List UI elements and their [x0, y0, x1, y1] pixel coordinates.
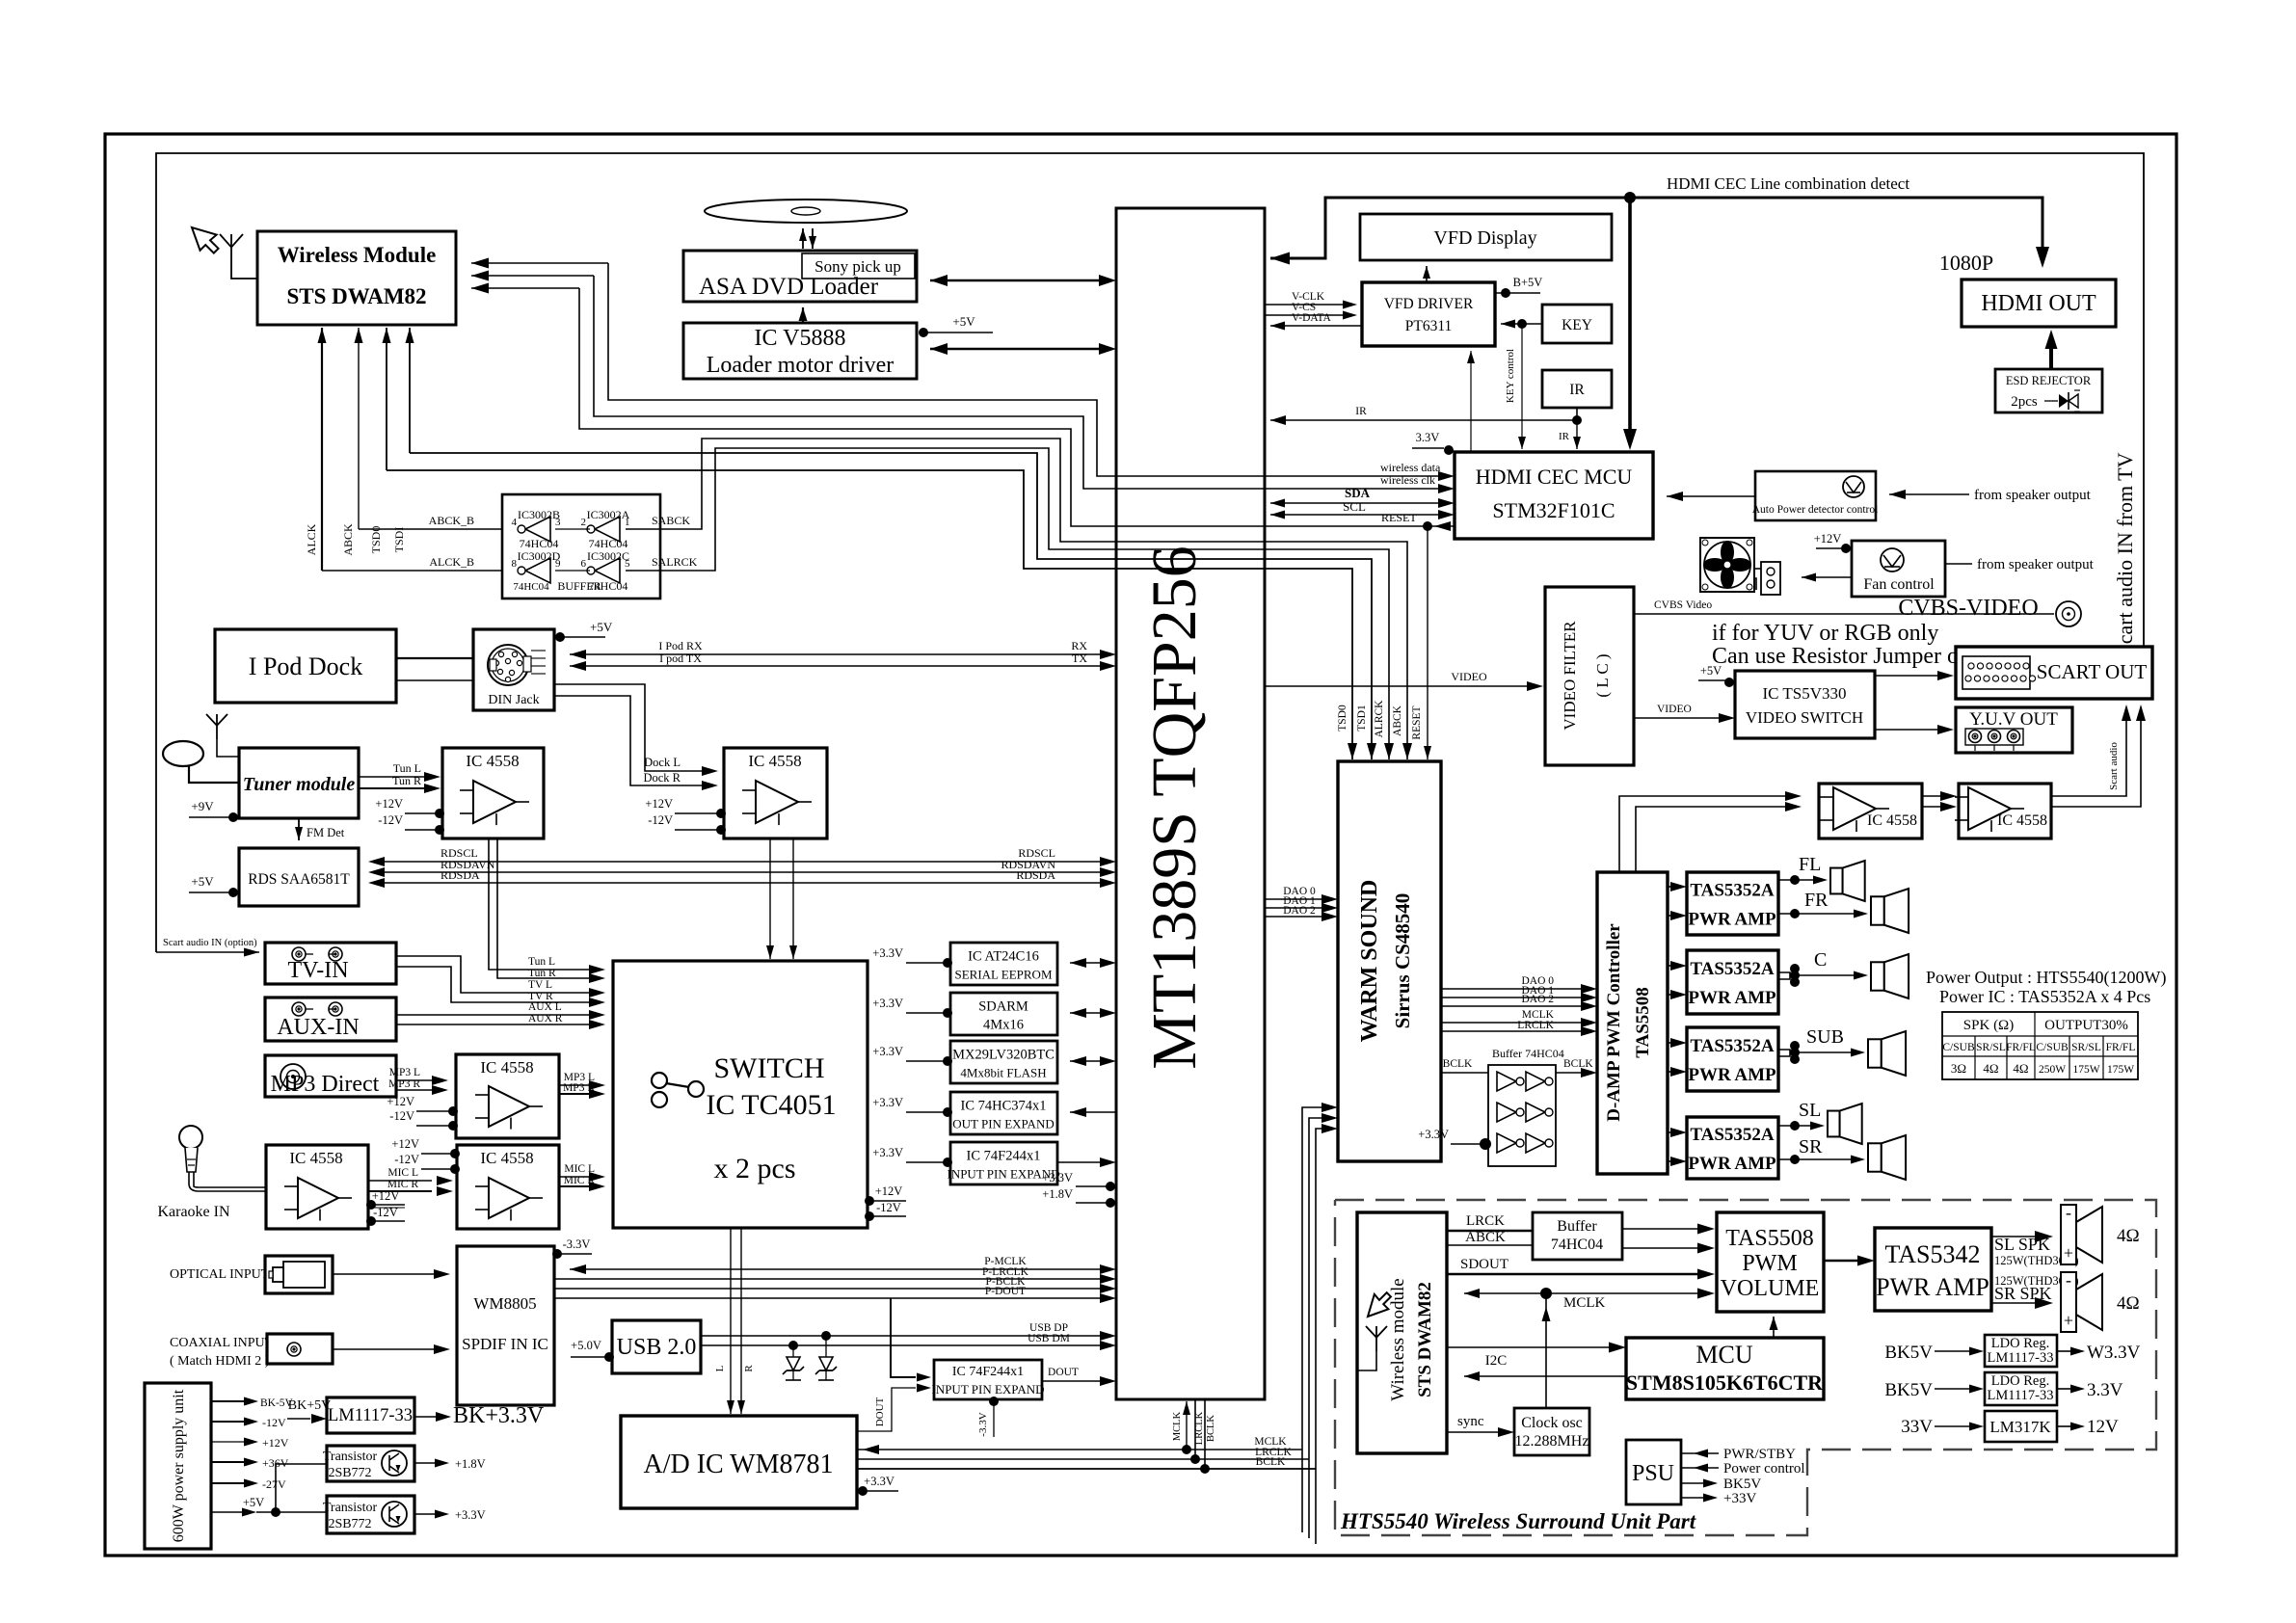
wire LRCLK line AD — [858, 1458, 1309, 1460]
svg-text:VOLUME: VOLUME — [1721, 1276, 1820, 1301]
block D-AMP PWM Controller TAS5508 — [1597, 872, 1668, 1174]
svg-text:TAS5352A: TAS5352A — [1690, 881, 1775, 901]
node +12V tuner opamp — [405, 812, 437, 814]
node +12V karaoke1 — [368, 1204, 405, 1206]
block IC 4558 karaoke 2 — [457, 1145, 559, 1229]
wire HDMI CEC line combination detect — [1270, 198, 2042, 258]
wire auto power to MCU — [1667, 495, 1755, 497]
svg-text:I pod TX: I pod TX — [659, 652, 702, 665]
svg-text:wireless data: wireless data — [1380, 461, 1441, 474]
svg-text:2: 2 — [581, 517, 587, 528]
wire TSD1 — [409, 328, 411, 453]
svg-text:x 2 pcs: x 2 pcs — [714, 1153, 796, 1184]
wire BK+5V in — [287, 1418, 310, 1420]
wire +5V branch to transistor1 — [276, 1464, 327, 1512]
svg-text:+5V: +5V — [590, 620, 613, 634]
disc — [705, 200, 907, 223]
wire RDSDA — [374, 882, 1103, 884]
svg-text:4Ω: 4Ω — [2117, 1226, 2140, 1246]
svg-text:IR: IR — [1569, 382, 1585, 398]
svg-text:Scart audio: Scart audio — [2108, 742, 2120, 790]
svg-text:+3.3V: +3.3V — [872, 946, 903, 960]
svg-text:+12V: +12V — [645, 797, 673, 811]
node -12V karaoke1 — [368, 1220, 405, 1222]
wire wireless data — [608, 263, 1447, 476]
svg-text:BK5V: BK5V — [1884, 1380, 1933, 1400]
block Clock osc 12.288MHz — [1514, 1408, 1589, 1455]
svg-text:MX29LV320BTC: MX29LV320BTC — [952, 1048, 1055, 1063]
svg-text:3Ω: 3Ω — [1951, 1061, 1966, 1076]
svg-text:175W: 175W — [2107, 1064, 2134, 1076]
wire Tun R down to switch — [497, 838, 596, 978]
wire SR SPK out — [1991, 1302, 2036, 1304]
block MT1389S TQFP256 — [1116, 208, 1265, 1399]
svg-text:I Pod Dock: I Pod Dock — [249, 652, 362, 680]
svg-text:PSU: PSU — [1632, 1461, 1674, 1486]
svg-text:SALRCK: SALRCK — [652, 555, 698, 569]
svg-text:MIC L: MIC L — [387, 1167, 418, 1179]
svg-text:LDO Reg.: LDO Reg. — [1991, 1373, 2049, 1389]
wire out1 to out2 — [1922, 795, 1945, 797]
svg-text:AUX-IN: AUX-IN — [277, 1015, 359, 1040]
svg-text:if for YUV or RGB only: if for YUV or RGB only — [1712, 621, 1938, 646]
wire LRCLK ws to damp — [1441, 1030, 1584, 1032]
svg-text:74HC04: 74HC04 — [589, 537, 628, 550]
wire MCLK line AD — [857, 1449, 1302, 1450]
block ESD REJECTOR — [1995, 369, 2102, 412]
svg-text:IC 4558: IC 4558 — [1997, 812, 2047, 829]
block Y.U.V OUT — [1956, 707, 2072, 753]
svg-text:ALCK_B: ALCK_B — [429, 555, 474, 569]
block Tuner module — [239, 748, 359, 818]
wire +12V psu — [211, 1441, 245, 1443]
svg-text:+: + — [2064, 1311, 2073, 1330]
svg-text:BK+5V: BK+5V — [288, 1398, 331, 1413]
svg-text:FR/FL: FR/FL — [2106, 1042, 2136, 1053]
svg-text:IC V5888: IC V5888 — [755, 326, 846, 351]
block IC 4558 mp3 — [456, 1054, 559, 1138]
svg-text:1: 1 — [625, 517, 630, 528]
svg-text:Dock R: Dock R — [643, 771, 681, 785]
block HDMI CEC MCU STM32F101C — [1455, 452, 1653, 539]
antenna wireless module — [230, 248, 232, 264]
svg-text:BCLK: BCLK — [1563, 1058, 1593, 1070]
svg-text:from speaker output: from speaker output — [1977, 557, 2095, 572]
wire SUB + speaker SUB — [1778, 1050, 1790, 1056]
svg-text:LM1117-33: LM1117-33 — [1987, 1388, 2053, 1403]
svg-text:Scart audio IN from TV: Scart audio IN from TV — [2113, 452, 2137, 655]
svg-text:SL: SL — [1799, 1100, 1821, 1121]
block PSU — [1626, 1440, 1681, 1504]
wire SCL — [1270, 514, 1447, 516]
svg-text:+5.0V: +5.0V — [571, 1339, 601, 1352]
wire Power control — [1681, 1467, 1719, 1469]
svg-text:SL SPK: SL SPK — [1994, 1235, 2050, 1254]
block MCU STM8S105K6T6CTR — [1626, 1338, 1824, 1399]
svg-text:WM8805: WM8805 — [473, 1294, 536, 1313]
svg-text:2SB772: 2SB772 — [328, 1466, 371, 1480]
wire TS5V330 to SCART — [1875, 675, 1940, 677]
svg-text:TV-IN: TV-IN — [287, 958, 348, 983]
svg-text:Power control: Power control — [1723, 1461, 1805, 1477]
wire BCLK up to warm sound — [1316, 1129, 1328, 1469]
svg-text:+3.3V: +3.3V — [872, 1045, 903, 1058]
svg-text:+12V: +12V — [375, 797, 403, 811]
svg-text:+12V: +12V — [391, 1137, 419, 1151]
svg-text:SUB: SUB — [1806, 1026, 1844, 1048]
wire MIC R stage1 — [368, 1190, 432, 1192]
svg-text:250W: 250W — [2039, 1064, 2066, 1076]
wire DAO 1 ws to damp — [1441, 997, 1584, 998]
wire MIC L stage1 — [368, 1180, 432, 1182]
svg-text:TV L: TV L — [528, 979, 552, 991]
svg-text:ASA DVD Loader: ASA DVD Loader — [699, 274, 879, 300]
svg-text:175W: 175W — [2072, 1064, 2099, 1076]
svg-text:MIC R: MIC R — [387, 1179, 419, 1190]
svg-text:Power IC : TAS5352A x 4 Pcs: Power IC : TAS5352A x 4 Pcs — [1939, 987, 2150, 1006]
svg-text:MCU: MCU — [1695, 1341, 1752, 1369]
svg-text:TX: TX — [1072, 652, 1087, 665]
svg-text:( L C ): ( L C ) — [1593, 653, 1612, 697]
svg-text:+3.3V: +3.3V — [872, 1096, 903, 1109]
svg-text:CVBS-VIDEO: CVBS-VIDEO — [1898, 596, 2038, 621]
node +5V TS5V330 — [1698, 679, 1725, 681]
svg-text:IC 4558: IC 4558 — [466, 752, 519, 770]
svg-text:TAS5352A: TAS5352A — [1690, 1036, 1775, 1056]
svg-text:PWM: PWM — [1742, 1251, 1797, 1276]
wire VIDEO out — [1265, 685, 1535, 687]
wire damp to opamp out1 b — [1636, 807, 1788, 872]
block IR — [1542, 370, 1612, 408]
svg-text:BK5V: BK5V — [1884, 1343, 1933, 1363]
svg-text:+1.8V: +1.8V — [455, 1457, 486, 1471]
wire CEC to MCU — [1628, 198, 1632, 434]
wire SR + speaker SR — [1778, 1158, 1855, 1160]
svg-text:C/SUB: C/SUB — [1942, 1042, 1975, 1053]
svg-text:L: L — [714, 1365, 726, 1371]
node +5.0V USB — [571, 1356, 606, 1358]
svg-text:12V: 12V — [2087, 1417, 2119, 1437]
svg-text:ABCK: ABCK — [1392, 705, 1403, 736]
svg-text:CVBS Video: CVBS Video — [1654, 599, 1712, 611]
block IC TS5V330 VIDEO SWITCH — [1735, 671, 1875, 738]
wire from speaker output 1 — [1889, 493, 1969, 495]
wire ALCK — [321, 328, 323, 571]
block USB 2.0 — [612, 1320, 701, 1373]
svg-text:Tun R: Tun R — [392, 774, 421, 787]
speaker SL surround — [2061, 1205, 2076, 1264]
svg-text:SDARM: SDARM — [978, 999, 1028, 1015]
svg-text:RDSDA: RDSDA — [1016, 868, 1055, 882]
svg-text:DIN Jack: DIN Jack — [488, 693, 539, 707]
node +5V DIN — [555, 632, 565, 642]
wire Dock R — [554, 696, 710, 785]
svg-text:IR: IR — [1559, 431, 1570, 442]
speaker SR surround — [2061, 1272, 2076, 1332]
block ASA DVD Loader — [683, 251, 917, 302]
block Transistor 2SB772 upper — [327, 1446, 414, 1481]
svg-text:MT1389S TQFP256: MT1389S TQFP256 — [1139, 545, 1210, 1069]
node -12V karaoke2 — [421, 1168, 453, 1170]
wire IR to MCU — [1576, 420, 1578, 449]
block Sony pick up — [802, 253, 915, 279]
block Auto Power detector control — [1755, 471, 1876, 520]
svg-text:LRCLK: LRCLK — [1194, 1411, 1205, 1445]
svg-text:4Ω: 4Ω — [1983, 1061, 1998, 1076]
svg-text:-12V: -12V — [389, 1109, 414, 1123]
svg-text:AUX L: AUX L — [528, 1001, 562, 1013]
wire out2 to scart b — [2051, 712, 2141, 807]
inverter IC3002A — [595, 517, 620, 542]
wire +1.8V out — [414, 1462, 436, 1464]
wire MCLK from MT1389S — [1186, 1401, 1188, 1450]
svg-text:Sirrus CS48540: Sirrus CS48540 — [1391, 893, 1414, 1029]
svg-text:HDMI OUT: HDMI OUT — [1981, 291, 2096, 316]
svg-text:SWITCH: SWITCH — [714, 1052, 825, 1084]
svg-text:3.3V: 3.3V — [1416, 431, 1440, 444]
wire Tun L to opamp — [359, 776, 424, 778]
svg-text:TAS5352A: TAS5352A — [1690, 959, 1775, 979]
block Fan control — [1852, 541, 1945, 597]
svg-text:STM32F101C: STM32F101C — [1492, 498, 1615, 522]
svg-text:+12V: +12V — [262, 1436, 289, 1450]
block SWITCH IC TC4051 — [613, 961, 868, 1228]
svg-text:4Ω: 4Ω — [2013, 1061, 2028, 1076]
antenna tuner loop — [163, 741, 203, 766]
wire Tun L down to switch — [489, 838, 596, 970]
wire BCLK buffer to damp — [1556, 1072, 1584, 1074]
block AUX-IN — [265, 998, 396, 1041]
svg-text:TAS5508: TAS5508 — [1633, 987, 1653, 1058]
wire RDSCL — [374, 861, 1103, 863]
svg-text:ALCK: ALCK — [305, 523, 318, 555]
block MX29LV320BTC FLASH — [950, 1041, 1057, 1083]
wire SDOUT — [1447, 1273, 1698, 1275]
svg-text:IC3002C: IC3002C — [587, 549, 629, 563]
svg-text:TAS5352A: TAS5352A — [1690, 1125, 1775, 1145]
svg-text:WARM SOUND: WARM SOUND — [1357, 880, 1382, 1043]
wire PWR/STBY — [1681, 1452, 1719, 1454]
svg-text:IC 4558: IC 4558 — [748, 752, 801, 770]
node +12V fan — [1816, 547, 1843, 549]
svg-text:2pcs: 2pcs — [2011, 394, 2038, 410]
svg-text:Buffer 74HC04: Buffer 74HC04 — [1492, 1047, 1564, 1060]
wire MP3 R out — [559, 1093, 596, 1095]
svg-text:D-AMP PWM Controller: D-AMP PWM Controller — [1604, 923, 1624, 1122]
svg-text:IC 74F244x1: IC 74F244x1 — [952, 1365, 1024, 1379]
svg-text:MP3 R: MP3 R — [388, 1078, 420, 1090]
svg-text:Tuner module: Tuner module — [243, 774, 356, 795]
node -12V mp3 opamp — [416, 1125, 450, 1127]
node -3.3V 74F244 — [989, 1397, 999, 1406]
svg-text:+3.3V: +3.3V — [455, 1508, 486, 1522]
block TAS5342 PWR AMP — [1875, 1228, 1991, 1311]
wire MIC R out — [559, 1185, 596, 1187]
wire FM Det — [298, 818, 300, 840]
wire BCLK from MT1389S — [1204, 1399, 1206, 1469]
svg-text:wireless clk: wireless clk — [1380, 473, 1435, 487]
svg-text:SDOUT: SDOUT — [1460, 1257, 1508, 1272]
svg-text:C: C — [1814, 949, 1827, 971]
block IC 74F244x1 INPUT PIN EXPAND lower — [934, 1360, 1042, 1399]
node +12V mp3 opamp — [416, 1110, 450, 1112]
block TAS5508 PWM VOLUME — [1717, 1212, 1824, 1312]
wire MP3 L out — [559, 1084, 596, 1086]
wire sync — [1447, 1431, 1498, 1433]
svg-text:OPTICAL INPUT: OPTICAL INPUT — [170, 1267, 270, 1282]
wire USB DP — [701, 1335, 1103, 1337]
svg-text:KEY control: KEY control — [1505, 349, 1516, 403]
svg-text:BCLK: BCLK — [1443, 1058, 1473, 1070]
svg-text:9: 9 — [555, 558, 561, 570]
wire dock L down to switch — [769, 838, 771, 959]
fan connector bracket — [1761, 562, 1780, 595]
svg-text:12.288MHz: 12.288MHz — [1515, 1433, 1589, 1450]
svg-text:IC3002A: IC3002A — [587, 508, 630, 521]
svg-text:W3.3V: W3.3V — [2087, 1343, 2141, 1363]
wire BCLK line AD — [858, 1468, 1316, 1470]
svg-text:SDA: SDA — [1345, 486, 1371, 500]
antenna tuner mast — [216, 726, 218, 739]
svg-text:RESET: RESET — [1381, 511, 1417, 524]
block IC 74HC374x1 OUT PIN EXPAND — [950, 1092, 1057, 1134]
svg-text:2SB772: 2SB772 — [328, 1517, 371, 1531]
svg-text:OUT PIN EXPAND: OUT PIN EXPAND — [952, 1117, 1054, 1131]
block IC V5888 Loader motor driver — [683, 323, 917, 379]
svg-text:SR: SR — [1799, 1136, 1823, 1157]
svg-text:MIC L: MIC L — [564, 1163, 595, 1175]
svg-text:FR: FR — [1804, 890, 1829, 911]
svg-text:ABCK: ABCK — [341, 523, 355, 556]
svg-text:IC3002B: IC3002B — [518, 508, 560, 521]
svg-text:PWR AMP: PWR AMP — [1688, 988, 1776, 1008]
svg-text:ALRCK: ALRCK — [1374, 700, 1385, 738]
wire V-CS — [1265, 314, 1346, 316]
svg-text:( Match HDMI 2 ): ( Match HDMI 2 ) — [170, 1354, 270, 1369]
svg-text:MP3 L: MP3 L — [389, 1067, 420, 1078]
svg-text:IC TS5V330: IC TS5V330 — [1762, 684, 1846, 703]
block KEY — [1542, 305, 1612, 343]
wire I2C from MCU — [1464, 1375, 1626, 1377]
svg-text:Karaoke IN: Karaoke IN — [157, 1204, 230, 1220]
svg-text:600W power supply unit: 600W power supply unit — [171, 1389, 187, 1542]
node -12V tuner opamp — [405, 829, 437, 831]
connector CVBS RCA — [2056, 601, 2081, 626]
wire ABCK — [358, 328, 360, 529]
svg-text:SPDIF IN IC: SPDIF IN IC — [462, 1335, 548, 1353]
svg-text:VFD DRIVER: VFD DRIVER — [1384, 296, 1474, 312]
wire +36V psu — [211, 1461, 245, 1463]
svg-text:TSDI: TSDI — [392, 527, 406, 553]
dashed boundary HTS5540 wireless surround unit — [1335, 1200, 2156, 1535]
svg-text:IC AT24C16: IC AT24C16 — [968, 949, 1039, 965]
wire TSD0 — [386, 328, 387, 470]
svg-text:+3.3V: +3.3V — [1418, 1128, 1449, 1141]
wire AUX R — [396, 1024, 596, 1025]
node +12V dock opamp — [675, 812, 718, 814]
svg-text:SR/SL: SR/SL — [1976, 1042, 2006, 1053]
svg-text:1080P: 1080P — [1939, 251, 1993, 275]
svg-text:I Pod RX: I Pod RX — [658, 639, 703, 652]
wire optical to WM8805 — [333, 1273, 439, 1275]
wire SDA — [1270, 502, 1447, 504]
svg-text:-12V: -12V — [648, 813, 673, 827]
border outer frame — [105, 134, 2176, 1556]
svg-text:Loader motor driver: Loader motor driver — [707, 353, 894, 378]
svg-text:Wireless Module: Wireless Module — [278, 243, 437, 267]
block IC AT24C16 SERIAL EEPROM — [950, 943, 1057, 985]
wire ABCK — [1447, 1244, 1533, 1246]
wire AUX L — [396, 1014, 596, 1016]
svg-text:+: + — [2064, 1243, 2073, 1263]
wire P-LRCLK — [554, 1278, 1103, 1280]
svg-text:HDMI CEC Line combination dete: HDMI CEC Line combination detect — [1667, 174, 1909, 193]
block VIDEO FILTER LC — [1545, 587, 1634, 765]
wire from speaker output 2 — [1945, 563, 1972, 565]
svg-text:IC 74HC374x1: IC 74HC374x1 — [960, 1099, 1046, 1114]
svg-text:-12V: -12V — [378, 813, 403, 827]
wire KEY control to MCU — [1521, 324, 1523, 449]
svg-text:-27V: -27V — [262, 1477, 286, 1491]
node RESET branch dot — [1423, 521, 1432, 531]
svg-text:-3.3V: -3.3V — [563, 1237, 591, 1251]
svg-text:SABCK: SABCK — [652, 514, 690, 527]
wire DAO 0 to warm sound — [1265, 898, 1328, 900]
svg-text:BCLK: BCLK — [1206, 1415, 1216, 1442]
wire MCLK surround — [1464, 1292, 1698, 1294]
svg-text:+5V: +5V — [1700, 664, 1722, 678]
wire DOUT to MT1389S — [1042, 1380, 1103, 1382]
wire DOUT from AD to 74F244 — [857, 1388, 916, 1431]
block LM1117-33 main — [327, 1397, 414, 1433]
svg-text:PWR AMP: PWR AMP — [1688, 1065, 1776, 1085]
svg-text:+5V: +5V — [952, 314, 975, 329]
svg-text:MP3 R: MP3 R — [563, 1082, 595, 1094]
block A/D IC WM8781 — [621, 1416, 857, 1508]
svg-text:R: R — [743, 1365, 755, 1372]
svg-text:+12V: +12V — [387, 1095, 414, 1108]
svg-text:DOUT: DOUT — [1048, 1367, 1079, 1378]
block SDARM 4Mx16 — [950, 993, 1057, 1035]
diode TVS on USB DM — [788, 1341, 798, 1350]
wire BCLK ws to buffer — [1441, 1072, 1488, 1074]
svg-text:PWR AMP: PWR AMP — [1876, 1273, 1989, 1301]
wire KEY to driver — [1501, 323, 1542, 325]
svg-text:TSD0: TSD0 — [369, 526, 383, 554]
svg-text:HDMI CEC MCU: HDMI CEC MCU — [1476, 465, 1633, 489]
svg-text:LM317K: LM317K — [1989, 1418, 2051, 1436]
node +5V RDS — [189, 891, 233, 893]
wire V-CLK — [1265, 304, 1346, 306]
svg-text:Scart audio IN (option): Scart audio IN (option) — [163, 938, 257, 948]
svg-text:COAXIAL INPUT: COAXIAL INPUT — [170, 1336, 274, 1350]
svg-text:74HC04: 74HC04 — [520, 537, 559, 550]
node +3.3V MT1389S — [1076, 1185, 1110, 1187]
inverter IC3002B — [525, 517, 550, 542]
block IC 4558 karaoke 1 — [266, 1145, 368, 1229]
block SCART OUT — [1956, 647, 2152, 699]
svg-text:4Mx16: 4Mx16 — [983, 1018, 1024, 1033]
node +3.3V hex buffer — [1451, 1143, 1484, 1145]
svg-text:Clock osc: Clock osc — [1521, 1415, 1583, 1431]
block 600W power supply unit — [145, 1383, 211, 1549]
wire SABCK — [626, 439, 1407, 759]
svg-text:USB DM: USB DM — [1028, 1333, 1070, 1344]
wire -27V psu — [211, 1482, 245, 1484]
svg-text:+12V: +12V — [1814, 532, 1842, 545]
node +1.8V MT1389S — [1076, 1202, 1110, 1204]
svg-text:FL: FL — [1799, 854, 1821, 875]
